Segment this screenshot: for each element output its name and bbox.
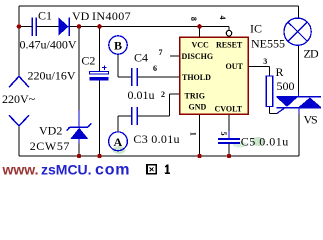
svg-text:CVOLT: CVOLT bbox=[215, 105, 243, 114]
svg-text:C5 0.01u: C5 0.01u bbox=[241, 134, 289, 148]
svg-text:C2: C2 bbox=[81, 54, 95, 68]
svg-text:2: 2 bbox=[161, 90, 165, 99]
svg-text:500: 500 bbox=[277, 79, 295, 93]
svg-text:GND: GND bbox=[189, 103, 207, 112]
svg-text:RESET: RESET bbox=[216, 40, 243, 49]
svg-text:A: A bbox=[114, 135, 123, 149]
svg-text:0.47u/400V: 0.47u/400V bbox=[20, 38, 77, 52]
svg-text:IC: IC bbox=[250, 22, 262, 36]
svg-text:VS: VS bbox=[304, 113, 317, 127]
svg-text:7: 7 bbox=[159, 48, 163, 57]
svg-text:B: B bbox=[114, 39, 122, 53]
svg-text:VCC: VCC bbox=[192, 40, 210, 49]
svg-text:220u/16V: 220u/16V bbox=[28, 69, 76, 83]
svg-text:3: 3 bbox=[263, 57, 267, 66]
svg-text:1: 1 bbox=[189, 132, 198, 136]
svg-text:DISCHG: DISCHG bbox=[182, 52, 214, 61]
svg-text:6: 6 bbox=[153, 64, 157, 73]
svg-text:VD2: VD2 bbox=[39, 124, 62, 138]
svg-text:C4: C4 bbox=[134, 51, 148, 65]
svg-text:C1: C1 bbox=[38, 9, 52, 23]
svg-text:IN4007: IN4007 bbox=[92, 9, 131, 23]
svg-text:THOLD: THOLD bbox=[182, 73, 211, 82]
svg-text:NE555: NE555 bbox=[251, 37, 285, 51]
svg-text:www.: www. bbox=[2, 162, 39, 178]
svg-text:R: R bbox=[276, 65, 284, 79]
svg-text:ZD: ZD bbox=[304, 47, 320, 61]
svg-text:220V~: 220V~ bbox=[2, 92, 36, 106]
svg-text:5: 5 bbox=[219, 132, 228, 136]
svg-text:TRIG: TRIG bbox=[185, 92, 205, 101]
svg-text:4: 4 bbox=[218, 16, 227, 20]
svg-text:0.01u: 0.01u bbox=[128, 88, 155, 102]
svg-text:OUT: OUT bbox=[226, 62, 244, 71]
svg-text:2CW57: 2CW57 bbox=[30, 139, 70, 153]
svg-text:8: 8 bbox=[189, 17, 198, 21]
svg-text:zsMCU.: zsMCU. bbox=[41, 162, 92, 178]
svg-text:C3 0.01u: C3 0.01u bbox=[133, 132, 179, 146]
svg-text:com: com bbox=[95, 162, 130, 178]
svg-text:VD: VD bbox=[72, 9, 90, 23]
